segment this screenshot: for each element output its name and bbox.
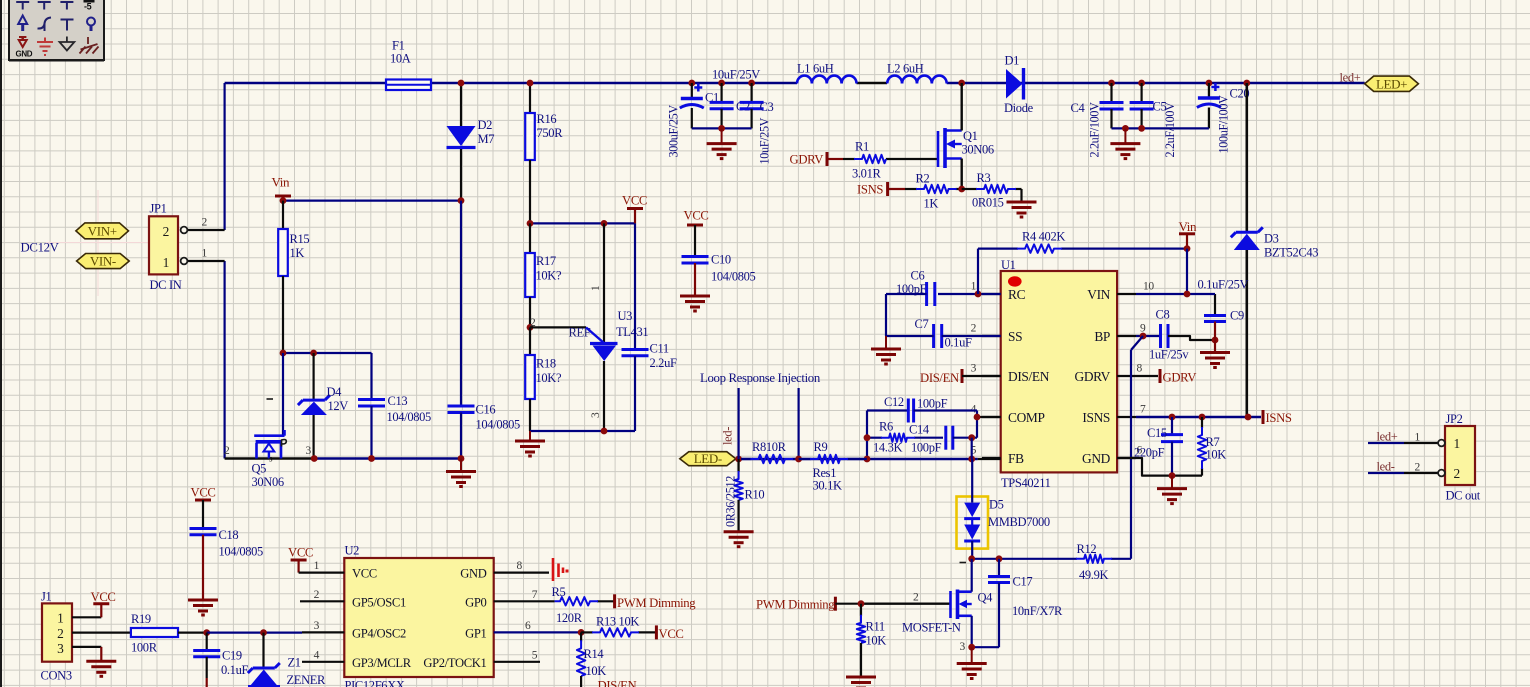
svg-text:0.1uF/25V: 0.1uF/25V xyxy=(1198,278,1249,292)
svg-text:C9: C9 xyxy=(1230,309,1244,323)
svg-text:ISNS: ISNS xyxy=(1266,411,1292,425)
svg-text:10K?: 10K? xyxy=(536,371,562,385)
svg-text:PIC12F6XX: PIC12F6XX xyxy=(345,679,405,687)
resistor R16 xyxy=(525,83,535,223)
svg-text:10K: 10K xyxy=(1206,448,1227,462)
resistor R15 xyxy=(278,201,288,353)
junction FB left col xyxy=(864,456,871,463)
svg-text:FB: FB xyxy=(1008,451,1024,466)
power port PWM Dimming q4 xyxy=(756,597,861,612)
svg-text:3.01R: 3.01R xyxy=(852,167,881,181)
svg-text:MOSFET-N: MOSFET-N xyxy=(902,621,961,635)
resistor R12 xyxy=(999,558,1077,560)
svg-text:VIN+: VIN+ xyxy=(88,223,117,238)
wire C6 left xyxy=(886,293,927,295)
ground at C6C7 xyxy=(885,336,887,349)
svg-text:C6: C6 xyxy=(911,269,925,283)
junction gnd bus xyxy=(1169,472,1176,479)
wire loop stub 1 xyxy=(737,388,739,459)
svg-text:JP1: JP1 xyxy=(150,202,167,216)
wire C1-C3 bottom bus xyxy=(692,127,752,129)
ground at U1 GND xyxy=(1171,476,1173,489)
svg-text:Vin: Vin xyxy=(272,175,291,190)
ground at C10 xyxy=(680,295,710,298)
power port VCC c10 xyxy=(684,209,709,226)
palette circle icon xyxy=(87,18,95,32)
wire ISNS net xyxy=(1136,416,1261,418)
junction rail-C3 xyxy=(748,80,755,87)
wire main top rail xyxy=(225,82,1365,85)
junction R13-R14 xyxy=(578,629,585,636)
svg-text:C8: C8 xyxy=(1156,308,1170,322)
junction ISNS-R7 xyxy=(1199,414,1206,421)
svg-text:Z1: Z1 xyxy=(288,656,301,670)
junction TL431 anode xyxy=(601,428,608,435)
pin U2-1 xyxy=(299,571,345,573)
wire GND pin net xyxy=(1117,458,1202,476)
svg-text:VCC: VCC xyxy=(288,546,313,560)
junction rail-C5 xyxy=(1138,80,1145,87)
svg-text:R6: R6 xyxy=(879,420,893,434)
junction Q1 source node xyxy=(958,186,965,193)
svg-text:GP3/MCLR: GP3/MCLR xyxy=(352,656,412,670)
svg-text:30N06: 30N06 xyxy=(962,143,994,157)
svg-text:7: 7 xyxy=(532,589,538,601)
svg-text:VCC: VCC xyxy=(659,627,684,641)
wire D3 column top xyxy=(1246,83,1249,231)
svg-text:30.1K: 30.1K xyxy=(813,479,842,493)
svg-text:1: 1 xyxy=(314,560,320,572)
capacitor C17 xyxy=(972,559,1010,647)
IC U3 TL431 xyxy=(586,223,618,431)
svg-text:-5: -5 xyxy=(84,2,92,12)
pin mark Q4-1 xyxy=(960,562,967,564)
svg-text:C11: C11 xyxy=(650,342,669,356)
svg-text:R3: R3 xyxy=(977,171,991,185)
svg-text:PWM Dimming: PWM Dimming xyxy=(756,598,835,612)
wire VCC row y223 xyxy=(530,222,635,224)
resistor R11 xyxy=(860,604,862,616)
svg-text:led-: led- xyxy=(1377,460,1395,474)
svg-text:D3: D3 xyxy=(1264,232,1279,246)
svg-text:GND: GND xyxy=(1082,451,1111,466)
wire C12 right xyxy=(914,409,977,411)
power port ISNS left xyxy=(857,182,905,197)
svg-text:R1: R1 xyxy=(855,140,869,154)
junction Vin-D2 xyxy=(458,197,465,204)
palette bar icon xyxy=(61,20,74,31)
pin JP1-2 xyxy=(181,227,225,234)
port LED- xyxy=(680,452,736,466)
junction Q4 drain xyxy=(968,555,975,562)
junction COMP xyxy=(974,414,981,421)
capacitor C14 xyxy=(944,426,947,450)
svg-text:Diode: Diode xyxy=(1004,101,1034,115)
junction FB-D5 xyxy=(968,456,975,463)
svg-text:2.2uF/100V: 2.2uF/100V xyxy=(1088,102,1102,158)
svg-text:R15: R15 xyxy=(290,232,310,246)
ground at R10 xyxy=(724,530,754,533)
wire BP column xyxy=(1130,350,1132,559)
wire VIN net xyxy=(1136,293,1215,295)
resistor R13 xyxy=(581,631,593,633)
svg-text:30N06: 30N06 xyxy=(252,475,284,489)
palette earth gnd icon xyxy=(60,37,75,51)
junction R11 top xyxy=(858,600,865,607)
wire FB pin stub xyxy=(978,458,1001,460)
svg-text:D2: D2 xyxy=(478,118,493,132)
wire bottom row to C16 xyxy=(314,457,461,459)
palette wave icon xyxy=(38,18,52,29)
svg-text:DIS/EN: DIS/EN xyxy=(920,371,959,385)
capacitor C13 xyxy=(358,353,385,459)
svg-text:GDRV: GDRV xyxy=(790,153,825,167)
wire D3 column bottom xyxy=(1246,250,1249,417)
svg-text:104/0805: 104/0805 xyxy=(219,545,264,559)
capacitor C8 xyxy=(1159,324,1162,348)
junction rail-D2 xyxy=(458,80,465,87)
ground at J1 xyxy=(86,660,116,663)
wire TL431 bottom xyxy=(530,430,635,432)
svg-text:D4: D4 xyxy=(327,385,343,399)
svg-text:R16: R16 xyxy=(537,112,557,126)
svg-text:CON3: CON3 xyxy=(41,669,72,683)
svg-text:RC: RC xyxy=(1008,287,1026,302)
svg-text:104/0805: 104/0805 xyxy=(387,410,432,424)
capacitor C20 electrolytic xyxy=(1197,83,1221,128)
resistor R8 xyxy=(741,458,751,460)
junction C2 bottom xyxy=(718,125,725,132)
wire Q5 source row xyxy=(225,457,315,459)
svg-text:8: 8 xyxy=(1137,363,1143,375)
svg-text:BP: BP xyxy=(1094,329,1110,344)
pin J1-1 xyxy=(72,616,101,618)
svg-text:14.3K: 14.3K xyxy=(873,441,902,455)
junction R6C14 right xyxy=(968,434,975,441)
svg-text:10uF/25V: 10uF/25V xyxy=(712,68,760,82)
svg-text:DIS/EN: DIS/EN xyxy=(598,679,637,687)
svg-text:VIN: VIN xyxy=(1087,287,1110,302)
pin J1-2 xyxy=(72,631,131,633)
junction R15-Q5gate xyxy=(280,350,287,357)
wire led+ jp2 xyxy=(1368,442,1404,444)
pin JP1-1 xyxy=(181,258,225,265)
svg-text:7: 7 xyxy=(1140,404,1146,416)
junction rail-C4 xyxy=(1108,80,1115,87)
svg-text:2: 2 xyxy=(202,217,208,229)
svg-text:led-: led- xyxy=(721,427,735,445)
wire R4 drop xyxy=(977,249,979,294)
wire R3 to gnd xyxy=(1020,189,1022,202)
power port GDRV right xyxy=(1136,369,1197,385)
svg-text:BZT52C43: BZT52C43 xyxy=(1264,246,1318,260)
svg-text:VIN-: VIN- xyxy=(90,254,116,269)
svg-text:TPS40211: TPS40211 xyxy=(1001,476,1051,490)
power port Vin right xyxy=(1179,219,1198,249)
resistor R19 xyxy=(131,628,207,637)
pin U2-4 xyxy=(302,661,344,663)
wire comp left column xyxy=(866,411,868,460)
svg-text:1: 1 xyxy=(1415,432,1421,444)
U1 pin stub right xyxy=(1117,457,1136,459)
U1 pin stub left xyxy=(982,375,1001,377)
svg-text:10nF/X7R: 10nF/X7R xyxy=(1012,604,1063,618)
pin JP2-1 xyxy=(1404,440,1445,447)
resistor R2 xyxy=(905,188,917,190)
svg-text:750R: 750R xyxy=(537,126,564,140)
junction rail-C20 xyxy=(1206,80,1213,87)
resistor R1 xyxy=(843,158,855,160)
wire Vin to VIN pin xyxy=(1186,249,1188,294)
svg-text:GND: GND xyxy=(16,50,33,59)
svg-text:Loop Response Injection: Loop Response Injection xyxy=(700,371,821,385)
diode D5 xyxy=(964,459,980,559)
wire C12 row xyxy=(867,409,908,411)
junction C17 top xyxy=(996,555,1003,562)
junction Vin-R15 xyxy=(280,197,287,204)
connector JP2 xyxy=(1445,426,1475,485)
svg-text:1: 1 xyxy=(590,285,602,291)
wire C8 right xyxy=(1168,336,1215,340)
svg-text:VCC: VCC xyxy=(684,209,709,223)
transistor Q1 xyxy=(886,83,962,189)
svg-text:0R36/2512: 0R36/2512 xyxy=(724,476,738,527)
palette -5 icon xyxy=(84,0,95,12)
U1 pin stub right xyxy=(1117,416,1136,418)
U1 pin1 mark xyxy=(1008,276,1022,286)
junction rail-Q1drain xyxy=(958,80,965,87)
svg-text:2: 2 xyxy=(57,626,63,641)
junction LED- node xyxy=(735,456,742,463)
port VIN- xyxy=(77,254,130,269)
svg-text:2.2uF/100V: 2.2uF/100V xyxy=(1163,102,1177,158)
U1 pin stub left xyxy=(982,416,1001,418)
svg-text:Vin: Vin xyxy=(1179,219,1198,234)
svg-text:2: 2 xyxy=(1415,462,1421,474)
wire R10 bottom xyxy=(737,500,739,532)
junction comp left mid xyxy=(864,434,871,441)
capacitor C1 electrolytic xyxy=(680,83,704,128)
junction Q5-D4 node xyxy=(311,455,318,462)
wire R14 bottom xyxy=(580,676,582,687)
resistor R17 xyxy=(525,223,535,327)
junction Z1 top xyxy=(260,629,267,636)
connector JP1 xyxy=(149,216,178,274)
ground at Q4 xyxy=(971,648,973,664)
junction R4-Vin xyxy=(1184,245,1191,252)
junction rail-R16 xyxy=(527,80,534,87)
svg-text:2: 2 xyxy=(224,445,230,457)
svg-text:R12: R12 xyxy=(1077,542,1097,556)
power port VCC tl431 xyxy=(622,194,647,224)
palette signal gnd icon xyxy=(37,38,53,56)
svg-text:LED-: LED- xyxy=(694,451,722,466)
svg-text:J1: J1 xyxy=(41,590,52,604)
power port VCC u2 xyxy=(288,546,313,573)
svg-text:R10: R10 xyxy=(745,488,765,502)
svg-text:10K: 10K xyxy=(866,634,887,648)
wire Vin row xyxy=(283,200,461,202)
power port VCC r13 xyxy=(656,625,683,641)
resistor R3 xyxy=(962,188,977,190)
svg-text:C15: C15 xyxy=(1147,426,1167,440)
ground at C16 xyxy=(460,459,462,472)
svg-text:U3: U3 xyxy=(618,309,633,323)
svg-text:6: 6 xyxy=(525,620,531,632)
svg-text:1: 1 xyxy=(971,281,977,293)
capacitor C7 xyxy=(932,324,935,348)
svg-text:GP5/OSC1: GP5/OSC1 xyxy=(352,595,406,609)
svg-text:Q4: Q4 xyxy=(978,591,994,605)
ground at R18 xyxy=(529,431,531,441)
svg-text:C4: C4 xyxy=(1071,101,1086,115)
wire RC net xyxy=(938,293,1001,295)
svg-text:1: 1 xyxy=(57,611,63,626)
svg-text:U1: U1 xyxy=(1001,258,1016,272)
svg-text:R19: R19 xyxy=(131,612,151,626)
svg-text:TL431: TL431 xyxy=(616,325,648,339)
svg-text:VCC: VCC xyxy=(91,590,116,604)
svg-text:JP2: JP2 xyxy=(1446,412,1463,426)
wire led- jp2 xyxy=(1368,472,1404,474)
svg-text:VCC: VCC xyxy=(622,194,647,208)
U1 pin stub left xyxy=(982,457,1001,459)
U1 pin stub left xyxy=(982,335,1001,337)
power port VCC j1 xyxy=(91,590,116,617)
wire loop stub 2 xyxy=(797,388,799,459)
wire REF xyxy=(530,326,586,328)
svg-text:R5: R5 xyxy=(552,585,566,599)
svg-text:3: 3 xyxy=(971,363,977,375)
svg-text:DIS/EN: DIS/EN xyxy=(1008,369,1050,384)
junction TL431 cathode top xyxy=(601,220,608,227)
svg-text:12V: 12V xyxy=(328,399,349,413)
svg-text:1: 1 xyxy=(202,248,208,260)
junction C13 bottom xyxy=(368,455,375,462)
svg-text:GND: GND xyxy=(460,567,486,581)
svg-text:0.1uF: 0.1uF xyxy=(945,336,972,350)
svg-text:2: 2 xyxy=(913,592,919,604)
svg-text:led+: led+ xyxy=(1377,430,1398,444)
junction Q4 source xyxy=(968,644,975,651)
svg-text:100R: 100R xyxy=(131,641,158,655)
wire COMP drop xyxy=(976,411,978,438)
svg-text:C3: C3 xyxy=(760,100,774,114)
junction R16-R17 xyxy=(527,220,534,227)
svg-text:10K?: 10K? xyxy=(536,269,562,283)
power ground red at U2-8 xyxy=(553,558,569,581)
transistor Q5 xyxy=(254,353,286,464)
capacitor C11 xyxy=(622,223,649,431)
U1 pin stub right xyxy=(1117,293,1136,295)
svg-text:R9: R9 xyxy=(814,440,828,454)
svg-text:GP2/TOCK1: GP2/TOCK1 xyxy=(423,656,486,670)
IC U1 body xyxy=(1001,271,1117,472)
port LED+ xyxy=(1365,76,1419,91)
capacitor C16 xyxy=(448,201,475,459)
resistor R7 xyxy=(1201,417,1203,428)
junction ISNS-D3 xyxy=(1245,414,1252,421)
svg-text:3: 3 xyxy=(960,641,966,653)
svg-text:1: 1 xyxy=(1454,436,1460,451)
svg-text:2: 2 xyxy=(314,589,320,601)
toolbar palette xyxy=(9,0,104,60)
svg-text:D5: D5 xyxy=(989,498,1004,512)
svg-text:ISNS: ISNS xyxy=(1082,410,1110,425)
svg-text:LED+: LED+ xyxy=(1376,76,1407,91)
svg-text:GP0: GP0 xyxy=(465,595,486,609)
capacitor C9 xyxy=(1204,294,1226,353)
capacitor C18 xyxy=(190,500,217,600)
svg-text:C14: C14 xyxy=(909,423,930,437)
svg-text:5: 5 xyxy=(532,649,538,661)
svg-text:R2: R2 xyxy=(916,172,930,186)
junction rail-C1 xyxy=(688,80,695,87)
svg-text:104/0805: 104/0805 xyxy=(711,270,756,284)
svg-text:R17: R17 xyxy=(536,254,556,268)
svg-text:2.2uF: 2.2uF xyxy=(650,356,677,370)
svg-text:1K: 1K xyxy=(290,246,305,260)
pin J1-3 xyxy=(72,646,101,648)
ground at C18 xyxy=(188,599,218,602)
wire JP1 pin2 riser xyxy=(224,83,226,230)
palette GND icon xyxy=(19,36,27,47)
wire Q4 drain row xyxy=(972,558,999,560)
resistor R6 xyxy=(867,437,882,439)
pin U2-3 xyxy=(302,631,344,633)
junction C9 bottom xyxy=(1212,337,1219,344)
junction C5 bottom xyxy=(1138,125,1145,132)
svg-text:3: 3 xyxy=(590,412,602,418)
svg-text:GDRV: GDRV xyxy=(1163,371,1198,385)
power port DIS/EN xyxy=(920,369,1001,385)
U1 pin stub right xyxy=(1117,375,1136,377)
svg-text:10K: 10K xyxy=(586,664,607,678)
capacitor C12 xyxy=(907,399,910,423)
svg-text:Q1: Q1 xyxy=(963,129,978,143)
ground at C9 xyxy=(1200,351,1230,354)
junction ISNS-C15 xyxy=(1169,414,1176,421)
svg-text:R11: R11 xyxy=(866,620,885,634)
svg-text:L1 6uH: L1 6uH xyxy=(797,62,834,76)
svg-text:104/0805: 104/0805 xyxy=(476,418,521,432)
wire COMP pin link xyxy=(977,416,1001,418)
palette arrow icon xyxy=(18,16,27,32)
crosshair cursor xyxy=(46,190,150,296)
ground at C1C2C3 xyxy=(721,129,723,144)
wire R11 bottom xyxy=(860,643,862,677)
svg-text:3: 3 xyxy=(306,445,312,457)
svg-text:10A: 10A xyxy=(390,52,411,66)
svg-text:100uF/100V: 100uF/100V xyxy=(1217,95,1231,154)
resistor R10 xyxy=(737,459,739,472)
resistor R18 xyxy=(525,327,535,431)
junction RC-R4 xyxy=(975,291,982,298)
port VIN+ xyxy=(76,223,129,239)
ground at R3 xyxy=(1007,201,1037,204)
wire C4-C20 bottom bus xyxy=(1112,127,1209,129)
junction BP xyxy=(1140,333,1147,340)
U1 pin stub left xyxy=(982,293,1001,295)
svg-text:2: 2 xyxy=(1454,466,1460,481)
svg-text:GDRV: GDRV xyxy=(1075,369,1111,384)
svg-text:10: 10 xyxy=(1143,281,1154,293)
wire BP diagonal xyxy=(1131,336,1143,350)
svg-text:R18: R18 xyxy=(536,357,556,371)
wire row3 bus xyxy=(207,631,302,633)
junction REF node xyxy=(527,324,534,331)
pin U2-7 xyxy=(494,600,555,602)
